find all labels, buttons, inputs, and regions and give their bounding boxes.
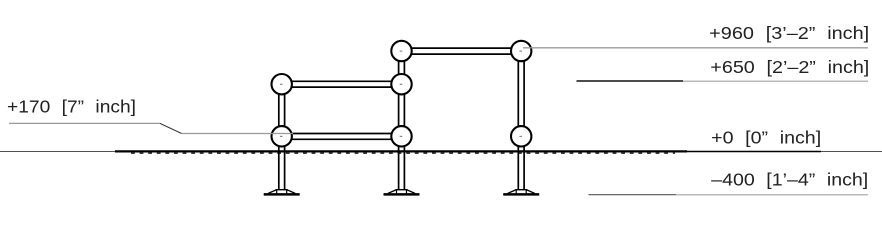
ball node B1 bbox=[272, 74, 292, 94]
ball node B5 bbox=[391, 126, 411, 146]
base plate F2 bbox=[384, 190, 420, 195]
ground line thick bbox=[115, 150, 687, 152]
bottom rail bbox=[282, 134, 402, 140]
post P1 (left) bbox=[279, 84, 285, 189]
ball node B4 bbox=[391, 74, 411, 94]
ball node B6 bbox=[511, 41, 531, 61]
top rail bbox=[402, 48, 522, 54]
hidden dashed ground line bbox=[131, 152, 675, 154]
post P3 (right) bbox=[518, 51, 524, 190]
svg-text:+170 [7” inch]: +170 [7” inch] bbox=[7, 97, 136, 117]
middle rail bbox=[282, 81, 402, 87]
base plate F3 bbox=[503, 190, 539, 195]
leader line +0 bbox=[687, 151, 821, 153]
leader line +170 (over ball) bbox=[9, 122, 160, 124]
svg-text:–400 [1’–4” inch]: –400 [1’–4” inch] bbox=[711, 170, 868, 190]
base plate F1 bbox=[264, 190, 300, 195]
post P2 (middle) bbox=[399, 51, 405, 190]
svg-text:+0 [0” inch]: +0 [0” inch] bbox=[711, 127, 821, 147]
ground line thin full width bbox=[0, 150, 882, 152]
ball node B7 bbox=[511, 126, 531, 146]
svg-text:+650 [2’–2” inch]: +650 [2’–2” inch] bbox=[710, 57, 869, 77]
ball node B3 bbox=[391, 41, 411, 61]
svg-text:+960 [3’–2” inch]: +960 [3’–2” inch] bbox=[709, 23, 869, 43]
leader line -400 bbox=[589, 194, 677, 196]
leader line +960 (over ball) bbox=[523, 47, 868, 49]
leader line +650 bbox=[577, 80, 684, 82]
ball node B2 bbox=[272, 126, 292, 146]
